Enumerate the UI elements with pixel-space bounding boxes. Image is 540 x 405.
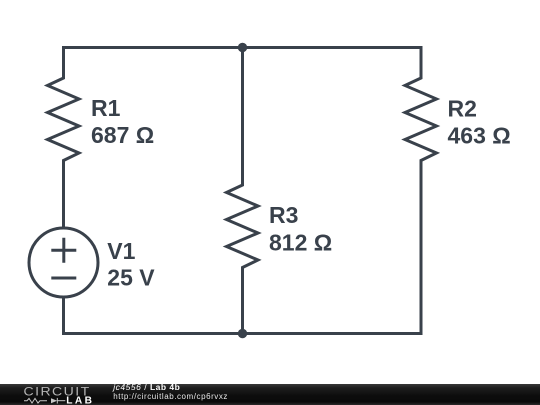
svg-text:812 Ω: 812 Ω: [269, 230, 332, 256]
svg-text:R3: R3: [269, 202, 298, 228]
svg-text:V1: V1: [107, 238, 135, 264]
svg-text:LAB: LAB: [66, 396, 94, 405]
svg-text:jc4556 / Lab 4b: jc4556 / Lab 4b: [112, 382, 180, 392]
svg-text:463 Ω: 463 Ω: [448, 123, 511, 149]
svg-text:25 V: 25 V: [107, 265, 155, 291]
svg-text:http://circuitlab.com/cp6rvxz: http://circuitlab.com/cp6rvxz: [113, 392, 228, 401]
svg-text:R2: R2: [448, 96, 477, 122]
svg-text:R1: R1: [91, 95, 121, 121]
svg-text:687 Ω: 687 Ω: [91, 122, 154, 148]
